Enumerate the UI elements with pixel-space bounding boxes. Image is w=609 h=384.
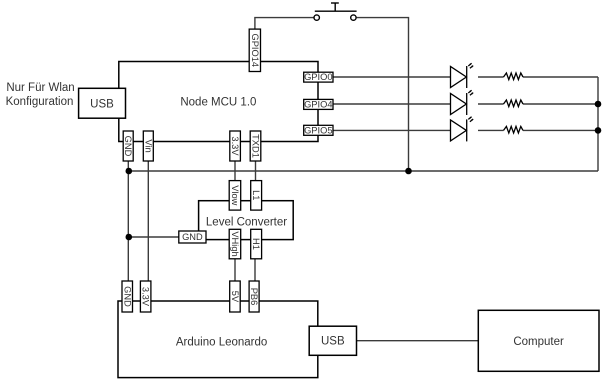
wire LED1 to R1 to right bus — [478, 76, 504, 78]
wire 3.3V to Vlow — [234, 161, 236, 181]
junction dot button to bus — [405, 168, 412, 175]
svg-text:H1: H1 — [251, 238, 261, 250]
junction dot right bus LED3 — [595, 127, 602, 134]
wire GPIO5 to LED3 — [333, 129, 451, 131]
svg-text:TXD1: TXD1 — [251, 134, 261, 158]
pin GND (Arduino) — [122, 281, 133, 312]
pin 3.3V (Arduino) — [140, 281, 151, 312]
svg-text:PB6: PB6 — [249, 288, 259, 306]
svg-text:GND: GND — [182, 232, 203, 242]
pin L1 — [251, 181, 262, 211]
junction dot GND bus left — [126, 168, 133, 175]
svg-text:Node MCU 1.0: Node MCU 1.0 — [180, 97, 256, 109]
svg-text:Vlow: Vlow — [230, 185, 240, 205]
Computer box — [478, 310, 599, 371]
svg-text:Konfiguration: Konfiguration — [6, 96, 74, 108]
pin VHigh — [229, 229, 241, 258]
svg-text:Computer: Computer — [513, 336, 564, 348]
pin GPIO14 — [249, 29, 260, 71]
resistor R1 — [504, 73, 524, 80]
wire LED2 to R2 to right bus — [478, 103, 504, 105]
wire GND junction to Level Converter GND — [129, 236, 179, 238]
junction dot right bus LED2 — [595, 101, 602, 108]
wire LED3 to R3 to right bus — [478, 129, 504, 131]
wire H1 to PB6 — [254, 259, 256, 281]
svg-text:GPIO0: GPIO0 — [304, 72, 332, 82]
USB box on Arduino — [309, 326, 356, 355]
svg-text:Arduino Leonardo: Arduino Leonardo — [176, 337, 267, 349]
wire GPIO14 to button left — [255, 18, 314, 30]
svg-text:Vin: Vin — [143, 139, 153, 152]
svg-text:USB: USB — [321, 336, 345, 348]
pin H1 — [251, 229, 262, 258]
resistor R3 — [504, 126, 524, 133]
Node MCU 1.0 box — [119, 62, 318, 142]
LED D2 — [451, 90, 474, 115]
pushbutton S1 — [314, 3, 357, 20]
svg-text:GND: GND — [122, 286, 132, 307]
svg-text:GPIO4: GPIO4 — [304, 99, 332, 109]
wire TXD1 to L1 — [255, 161, 257, 181]
svg-text:L1: L1 — [251, 190, 261, 200]
pin GPIO5 — [304, 125, 333, 135]
pin GND (NodeMCU) — [123, 131, 133, 161]
wire NodeMCU Vin down to Arduino 3.3V — [147, 161, 149, 281]
svg-text:GND: GND — [123, 136, 133, 157]
LED D3 — [451, 117, 474, 142]
svg-text:GPIO14: GPIO14 — [250, 34, 260, 68]
wire NodeMCU GND down to Arduino GND — [127, 161, 129, 281]
pin PB6 (Arduino) — [249, 281, 259, 312]
pin 5V (Arduino) — [230, 281, 241, 312]
svg-text:GPIO5: GPIO5 — [304, 125, 332, 135]
USB box on Node MCU — [79, 88, 126, 118]
wire right bus — [597, 77, 599, 171]
wire GPIO0 to LED1 — [333, 76, 451, 78]
svg-text:5V: 5V — [230, 291, 240, 303]
pin 3.3V (NodeMCU) — [230, 131, 241, 161]
pin GND (Level Converter) — [179, 231, 206, 243]
svg-text:3.3V: 3.3V — [141, 287, 151, 307]
resistor R2 — [504, 100, 524, 107]
svg-text:3.3V: 3.3V — [230, 136, 240, 156]
pin Vin — [143, 131, 153, 161]
junction dot LC GND branch — [126, 234, 133, 241]
pin GPIO0 — [304, 72, 333, 82]
svg-text:Level Converter: Level Converter — [206, 217, 287, 229]
Level Converter box — [199, 201, 294, 240]
pin Vlow — [229, 181, 241, 211]
LED D1 — [451, 63, 474, 88]
svg-text:VHigh: VHigh — [230, 231, 240, 256]
pin TXD1 — [250, 131, 261, 161]
svg-text:Nur Für Wlan: Nur Für Wlan — [6, 82, 74, 94]
pin GPIO4 — [304, 99, 333, 109]
wire button right down to ground bus — [357, 18, 409, 171]
wire VHigh to 5V — [234, 259, 236, 281]
wire Arduino USB to Computer — [357, 340, 479, 342]
wire ground bus bottom — [129, 170, 598, 172]
svg-text:USB: USB — [90, 98, 114, 110]
wire GPIO4 to LED2 — [333, 103, 451, 105]
Arduino Leonardo box — [118, 301, 318, 378]
